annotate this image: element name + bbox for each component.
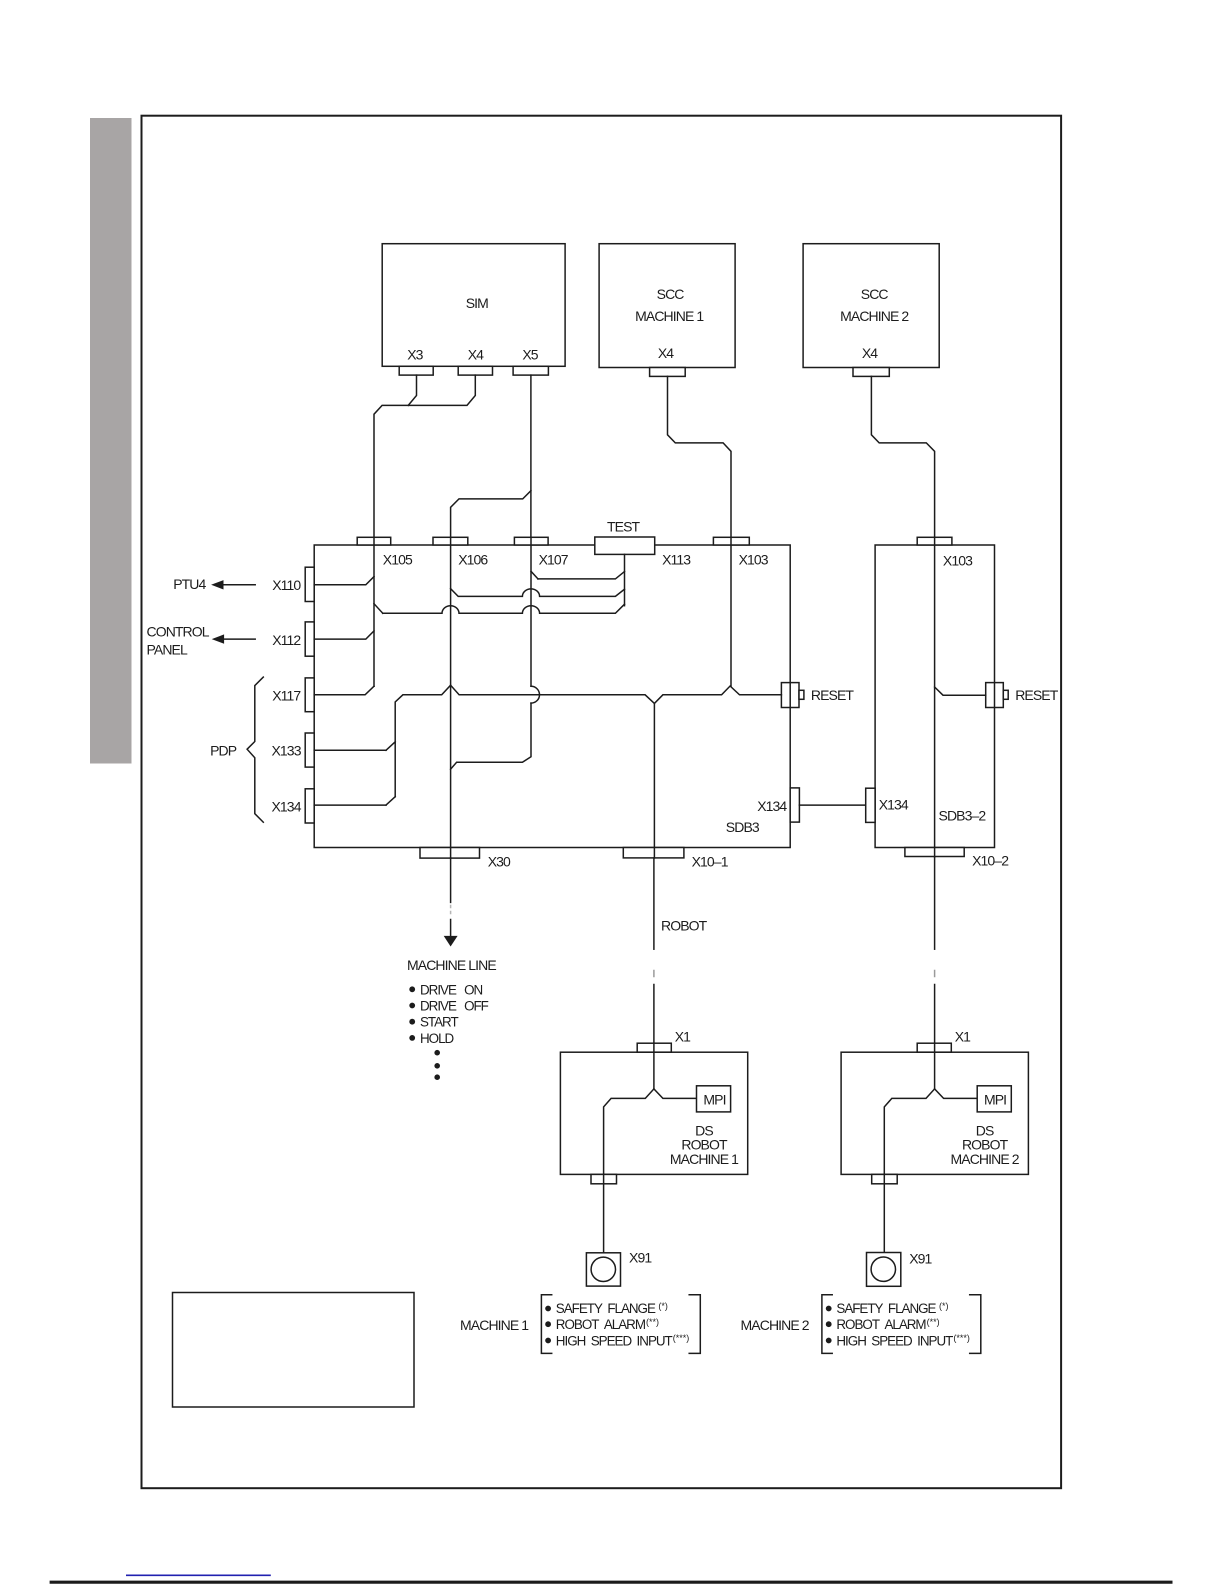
svg-text:HIGH SPEED INPUT(***): HIGH SPEED INPUT(***): [556, 1333, 689, 1348]
svg-text:X106: X106: [458, 551, 488, 567]
svg-text:X30: X30: [488, 854, 511, 870]
svg-text:PANEL: PANEL: [147, 642, 188, 658]
svg-text:X10–2: X10–2: [972, 852, 1009, 868]
svg-text:X4: X4: [468, 347, 484, 363]
svg-text:X3: X3: [407, 347, 423, 363]
svg-text:MACHINE 1: MACHINE 1: [460, 1317, 529, 1333]
svg-text:X91: X91: [909, 1250, 932, 1266]
svg-text:SAFETY FLANGE(*): SAFETY FLANGE(*): [556, 1301, 668, 1316]
svg-text:X1: X1: [955, 1028, 971, 1044]
svg-text:X134: X134: [271, 798, 301, 814]
svg-text:SCC: SCC: [657, 286, 685, 302]
svg-text:RESET: RESET: [811, 687, 855, 703]
svg-text:MACHINE LINE: MACHINE LINE: [407, 957, 496, 973]
svg-text:X103: X103: [739, 551, 769, 567]
svg-text:X134: X134: [879, 796, 909, 812]
svg-text:HIGH SPEED INPUT(***): HIGH SPEED INPUT(***): [836, 1333, 969, 1348]
svg-text:MPI: MPI: [984, 1092, 1006, 1108]
svg-text:X117: X117: [272, 687, 301, 703]
svg-text:X105: X105: [383, 551, 413, 567]
svg-text:X103: X103: [943, 553, 973, 569]
svg-text:X113: X113: [662, 551, 691, 567]
svg-text:ROBOT: ROBOT: [661, 918, 708, 934]
svg-text:MACHINE 2: MACHINE 2: [741, 1317, 810, 1333]
svg-text:PTU4: PTU4: [173, 576, 206, 592]
svg-text:HOLD: HOLD: [420, 1031, 455, 1046]
svg-text:X10–1: X10–1: [692, 854, 729, 870]
svg-text:X4: X4: [658, 345, 674, 361]
svg-text:MACHINE 1: MACHINE 1: [635, 308, 704, 324]
svg-text:MACHINE 2: MACHINE 2: [951, 1151, 1020, 1167]
svg-text:MACHINE 2: MACHINE 2: [840, 308, 909, 324]
svg-text:SDB3–2: SDB3–2: [939, 808, 987, 824]
svg-text:SDB3: SDB3: [726, 819, 760, 835]
svg-text:DRIVE ON: DRIVE ON: [420, 982, 483, 997]
svg-text:X1: X1: [675, 1028, 691, 1044]
svg-text:ROBOT ALARM(**): ROBOT ALARM(**): [836, 1317, 939, 1332]
svg-text:X110: X110: [272, 577, 301, 593]
svg-text:X5: X5: [522, 347, 538, 363]
svg-text:PDP: PDP: [210, 743, 237, 759]
svg-text:X91: X91: [629, 1250, 652, 1266]
svg-text:CONTROL: CONTROL: [147, 624, 210, 640]
svg-text:RESET: RESET: [1015, 687, 1059, 703]
svg-text:X112: X112: [272, 632, 301, 648]
svg-text:ROBOT ALARM(**): ROBOT ALARM(**): [556, 1317, 659, 1332]
svg-text:X133: X133: [271, 743, 301, 759]
svg-text:MACHINE 1: MACHINE 1: [670, 1151, 739, 1167]
svg-text:X4: X4: [862, 345, 878, 361]
svg-text:X134: X134: [757, 798, 787, 814]
svg-text:MPI: MPI: [703, 1092, 725, 1108]
svg-text:X107: X107: [539, 551, 569, 567]
svg-text:START: START: [420, 1015, 458, 1030]
svg-text:SCC: SCC: [861, 286, 889, 302]
svg-text:DRIVE OFF: DRIVE OFF: [420, 999, 489, 1014]
svg-text:TEST: TEST: [607, 518, 641, 534]
svg-text:SIM: SIM: [466, 295, 488, 311]
svg-text:SAFETY FLANGE(*): SAFETY FLANGE(*): [836, 1301, 948, 1316]
